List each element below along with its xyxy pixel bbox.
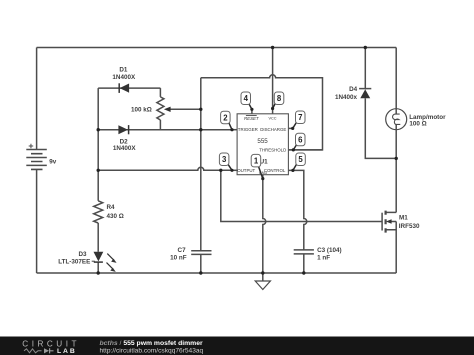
svg-text:TRIGGER: TRIGGER — [238, 127, 258, 132]
svg-text:1 nF: 1 nF — [317, 255, 330, 262]
svg-text:555: 555 — [257, 138, 268, 145]
svg-text:4: 4 — [244, 94, 249, 103]
svg-text:LAB: LAB — [57, 348, 77, 355]
svg-text:CONTROL: CONTROL — [264, 168, 286, 173]
svg-text:8: 8 — [277, 94, 282, 103]
svg-text:5: 5 — [298, 155, 303, 164]
svg-text:6: 6 — [298, 135, 303, 144]
svg-text:1N400x: 1N400x — [335, 94, 358, 101]
svg-text:7: 7 — [298, 113, 302, 122]
svg-text:IRF530: IRF530 — [399, 223, 420, 230]
svg-text:OUTPUT: OUTPUT — [237, 168, 255, 173]
svg-text:3: 3 — [222, 155, 227, 164]
svg-text:http://circuitlab.com/cskqq76r: http://circuitlab.com/cskqq76r543aq — [100, 348, 204, 355]
svg-text:D4: D4 — [349, 86, 358, 93]
svg-text:LTL-307EE: LTL-307EE — [58, 259, 90, 266]
svg-text:C7: C7 — [178, 247, 187, 254]
svg-text:C3 (104): C3 (104) — [317, 247, 342, 254]
svg-text:D1: D1 — [119, 66, 128, 73]
svg-text:10 nF: 10 nF — [170, 254, 187, 261]
svg-text:VCC: VCC — [268, 117, 276, 121]
svg-text:9v: 9v — [49, 158, 57, 165]
svg-text:100 kΩ: 100 kΩ — [131, 107, 152, 114]
svg-text:THRESHOLD: THRESHOLD — [259, 147, 286, 152]
svg-text:100 Ω: 100 Ω — [409, 121, 426, 128]
svg-text:DISCHARGE: DISCHARGE — [260, 127, 286, 132]
svg-text:2: 2 — [223, 113, 228, 122]
svg-text:D3: D3 — [78, 251, 87, 258]
svg-text:R4: R4 — [107, 204, 116, 211]
svg-text:M1: M1 — [399, 215, 408, 222]
svg-text:bcths / 555 pwm mosfet dimmer: bcths / 555 pwm mosfet dimmer — [100, 340, 203, 347]
svg-text:1N400X: 1N400X — [112, 74, 136, 81]
svg-text:1: 1 — [254, 157, 259, 166]
svg-text:RESET: RESET — [244, 116, 259, 121]
svg-text:1N400X: 1N400X — [113, 145, 137, 152]
svg-text:430 Ω: 430 Ω — [107, 213, 124, 220]
